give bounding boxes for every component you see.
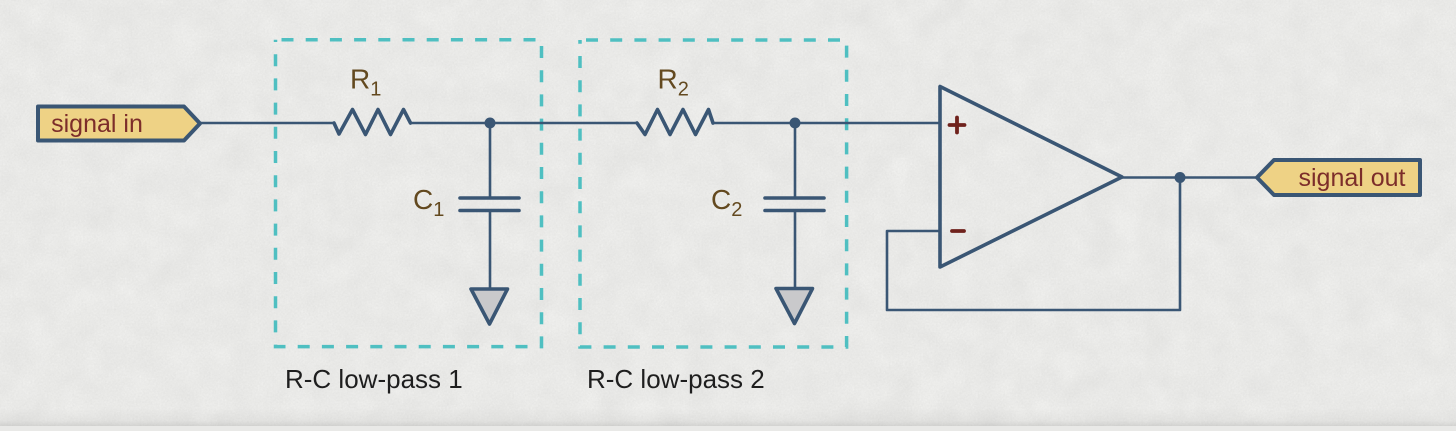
svg-text:signal in: signal in	[51, 110, 143, 138]
ground (stage 2)	[776, 289, 813, 324]
node C (output junction)	[1175, 172, 1186, 183]
flag: signal in	[38, 107, 200, 141]
wire: node A down to C1	[489, 123, 492, 197]
capacitor C2	[765, 198, 824, 211]
pin + (non-inverting input)	[950, 118, 965, 133]
svg-text:signal out: signal out	[1298, 164, 1405, 192]
svg-text:R-C low-pass 2: R-C low-pass 2	[587, 364, 765, 394]
svg-text:R-C low-pass 1: R-C low-pass 1	[285, 364, 463, 394]
dashed box stage 2	[580, 40, 847, 347]
wire: op-amp output	[1122, 176, 1257, 178]
dashed box stage 1	[276, 40, 542, 347]
wire: C1 to ground	[489, 212, 492, 289]
pin - (inverting input)	[952, 229, 964, 233]
wire: C2 to ground	[794, 212, 797, 289]
resistor R1	[334, 110, 411, 135]
wire: feedback from output to inverting input	[887, 178, 1180, 310]
ground (stage 1)	[471, 289, 508, 324]
node A (stage-1 junction)	[485, 118, 496, 129]
wire: node B down to C2	[794, 123, 797, 197]
wire: input to R1	[200, 122, 334, 124]
capacitor C1	[460, 198, 519, 211]
wire: R2 to op-amp	[713, 122, 940, 124]
flag: signal out	[1257, 160, 1420, 195]
node B (stage-2 junction)	[790, 118, 801, 129]
resistor R2	[637, 110, 713, 135]
wire: R1 to R2	[411, 122, 638, 124]
op-amp U1	[940, 87, 1122, 268]
